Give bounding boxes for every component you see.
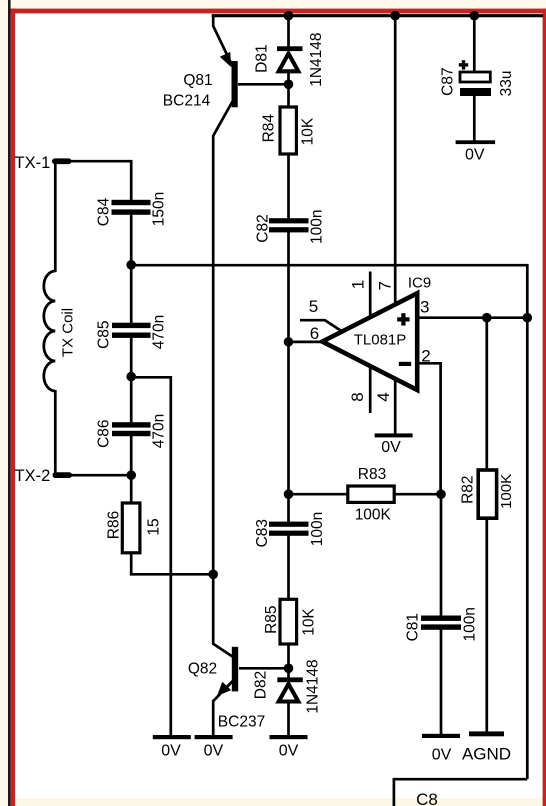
wire R83 left — [288, 493, 349, 496]
capacitor C85 — [96, 315, 168, 349]
coil TX Coil — [44, 271, 55, 391]
svg-text:C86: C86 — [96, 419, 113, 447]
node rail-pin7 — [390, 11, 400, 21]
ground 0V D82 — [270, 735, 308, 760]
svg-text:470n: 470n — [151, 315, 168, 349]
wire Q82 base — [239, 667, 288, 670]
node C84 / feedback — [126, 260, 136, 270]
node R85 / D82 / Q82 base — [284, 664, 294, 674]
wire coil to TX-2 — [54, 390, 57, 476]
diode D82 1N4148 — [253, 659, 322, 713]
svg-text:R82: R82 — [459, 475, 476, 503]
svg-text:3: 3 — [420, 298, 429, 317]
svg-text:0V: 0V — [161, 743, 181, 760]
svg-text:AGND: AGND — [462, 744, 511, 763]
svg-text:150n: 150n — [151, 192, 168, 226]
capacitor C83 — [254, 512, 326, 548]
wire C84 to feedback node — [130, 215, 133, 265]
wire R85 to D82 node — [287, 644, 290, 680]
svg-text:D82: D82 — [253, 671, 270, 699]
svg-text:R85: R85 — [263, 605, 280, 633]
wire R82 top — [485, 318, 488, 471]
wire TX-1 to C84 — [65, 161, 131, 201]
svg-text:8: 8 — [348, 392, 367, 401]
wire C87 top — [473, 14, 476, 73]
node R86 / Q82 collector — [208, 570, 218, 580]
svg-text:10K: 10K — [300, 117, 317, 145]
wire V+ top rail — [212, 14, 543, 17]
resistor R86 — [106, 503, 163, 553]
svg-text:D81: D81 — [254, 44, 271, 72]
node TX-2 / C86 / R86 — [126, 470, 136, 480]
capacitor C86 — [96, 414, 168, 448]
node R83 left — [284, 489, 294, 499]
terminal TX-2 — [15, 467, 73, 485]
wire Q81 base — [238, 83, 288, 86]
wire R84 to C82 — [287, 154, 290, 220]
svg-text:10K: 10K — [300, 608, 317, 636]
wire D81 top — [287, 14, 290, 47]
svg-text:C82: C82 — [254, 214, 271, 242]
node pin3 / R82 — [482, 313, 492, 323]
svg-text:1N4148: 1N4148 — [305, 659, 322, 713]
wire C87 to ground — [473, 95, 476, 141]
svg-text:100n: 100n — [309, 209, 326, 243]
svg-text:4: 4 — [374, 392, 393, 401]
wire op-amp pin 1 stub — [369, 272, 372, 318]
node Q81 base / D81 / R84 — [284, 80, 294, 90]
resistor R82 — [459, 470, 515, 518]
wire C83 to R85 — [287, 535, 290, 600]
svg-text:1: 1 — [348, 280, 367, 289]
svg-text:100n: 100n — [309, 512, 326, 546]
wire op-amp pin 2 to R83 — [417, 363, 441, 495]
ground 0V left — [153, 735, 191, 760]
capacitor C84 — [96, 192, 168, 226]
ground 0V C81 — [422, 734, 460, 764]
node rail-D81 — [284, 11, 294, 21]
op-amp IC9 TL081P — [309, 274, 431, 401]
svg-text:100K: 100K — [355, 507, 392, 524]
diode D81 1N4148 — [254, 32, 325, 86]
capacitor C81 — [405, 607, 479, 641]
node C85-C86 tap — [126, 372, 136, 382]
wire C81 top — [440, 494, 443, 617]
node R83 right / pin2 / C81 — [436, 489, 446, 499]
svg-text:R86: R86 — [106, 511, 123, 539]
wire C82 to R83 node — [287, 232, 290, 495]
svg-text:TX-2: TX-2 — [15, 467, 51, 485]
wire op-amp output pin 6 — [289, 341, 324, 344]
wire TX-1 to coil — [54, 163, 57, 273]
capacitor C87 electrolytic — [439, 60, 515, 96]
svg-text:6: 6 — [310, 324, 319, 343]
svg-text:2: 2 — [421, 347, 430, 366]
svg-text:BC214: BC214 — [163, 93, 211, 110]
wire right bus to C8 block — [526, 317, 529, 779]
wire TX-2 to node — [71, 474, 131, 477]
wire R83 right — [394, 493, 442, 496]
wire op-amp pin 7 supply — [394, 14, 397, 305]
wire C85 top — [130, 263, 133, 326]
capacitor C82 — [254, 209, 325, 243]
wire feedback node to op-amp + input — [131, 265, 527, 318]
svg-text:470n: 470n — [151, 414, 168, 448]
ground 0V C87 — [456, 140, 496, 163]
svg-text:0V: 0V — [465, 147, 485, 164]
svg-text:0V: 0V — [381, 439, 401, 456]
svg-text:R83: R83 — [358, 466, 386, 483]
svg-text:0V: 0V — [279, 743, 299, 760]
terminal TX-1 — [15, 154, 72, 172]
svg-text:IC9: IC9 — [408, 274, 431, 291]
wire Q81 emitter to rail — [213, 14, 233, 66]
svg-text:TX-1: TX-1 — [15, 154, 51, 172]
svg-text:R84: R84 — [261, 114, 278, 143]
wire Q82 emitter to ground — [213, 681, 233, 736]
wire node to R86 — [130, 475, 133, 504]
resistor R84 — [261, 107, 317, 154]
svg-text:C81: C81 — [405, 613, 422, 641]
ground 0V Q82 emitter — [195, 735, 233, 760]
svg-text:C84: C84 — [96, 197, 113, 226]
svg-text:100n: 100n — [461, 607, 478, 641]
wire C86 top — [130, 376, 133, 426]
svg-text:7: 7 — [376, 281, 395, 290]
node junction dots — [126, 11, 532, 673]
wire op-amp pin 8 stub — [369, 366, 372, 414]
wire R83 node to C83 — [287, 493, 290, 523]
svg-text:C85: C85 — [96, 320, 113, 348]
wire C86 to TX-2 node — [130, 432, 133, 476]
node rail-C87 — [470, 11, 480, 21]
wire R86 to Q82 collector node — [131, 552, 214, 574]
svg-text:TX Coil: TX Coil — [60, 308, 77, 357]
wire D81 to node B81 — [287, 72, 290, 108]
svg-text:5: 5 — [309, 297, 318, 316]
resistor R85 — [263, 599, 317, 644]
svg-text:Q82: Q82 — [188, 660, 217, 677]
wire C81 to ground — [440, 629, 443, 736]
wire node to ground column — [131, 377, 171, 736]
svg-text:1N4148: 1N4148 — [308, 32, 325, 86]
node op-amp output — [284, 337, 294, 347]
ground 0V op-amp pin 4 — [375, 433, 413, 456]
ground AGND — [462, 731, 511, 763]
wire D82 to ground — [287, 703, 290, 736]
node pin3 / right bus — [523, 313, 533, 323]
wire R82 to AGND — [485, 518, 488, 733]
svg-text:100K: 100K — [498, 474, 515, 509]
wire C85 to node — [130, 334, 133, 378]
transistor Q81 — [163, 52, 238, 110]
svg-text:C87: C87 — [439, 67, 456, 95]
wire op-amp pin 4 to ground — [394, 378, 397, 435]
svg-text:0V: 0V — [204, 743, 224, 760]
svg-text:C83: C83 — [254, 519, 271, 547]
svg-text:0V: 0V — [432, 747, 452, 764]
transistor Q82 — [188, 647, 265, 731]
wire op-amp pin 3 input — [417, 316, 527, 319]
wire Q81 collector down — [213, 101, 233, 657]
svg-text:33u: 33u — [498, 70, 515, 96]
resistor R83 — [348, 466, 394, 524]
C8 block outline — [394, 779, 527, 806]
svg-text:15: 15 — [146, 518, 163, 535]
svg-text:Q81: Q81 — [183, 72, 212, 89]
svg-text:TL081P: TL081P — [354, 331, 407, 348]
wire op-amp pin 5 — [300, 320, 343, 332]
svg-text:BC237: BC237 — [218, 713, 265, 730]
svg-text:C8: C8 — [416, 790, 438, 806]
